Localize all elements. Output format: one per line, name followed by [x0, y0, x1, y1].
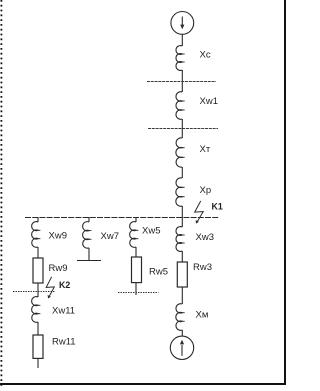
- svg-text:Xw9: Xw9: [49, 231, 67, 242]
- svg-text:Xc: Xc: [200, 50, 211, 61]
- svg-text:Rw3: Rw3: [193, 262, 212, 273]
- svg-text:Xw7: Xw7: [101, 231, 119, 242]
- svg-text:K2: K2: [59, 280, 70, 290]
- svg-text:Xw3: Xw3: [196, 232, 214, 243]
- svg-text:Xw5: Xw5: [142, 226, 160, 237]
- svg-text:Rw9: Rw9: [49, 263, 68, 274]
- svg-text:K1: K1: [212, 202, 223, 212]
- svg-text:Xр: Xр: [200, 185, 212, 196]
- svg-text:Xм: Xм: [196, 310, 209, 321]
- svg-text:Xт: Xт: [200, 144, 211, 155]
- svg-text:Xw11: Xw11: [52, 306, 75, 317]
- svg-text:Xw1: Xw1: [200, 96, 218, 107]
- svg-text:Rw11: Rw11: [52, 337, 76, 348]
- svg-text:Rw5: Rw5: [149, 267, 168, 278]
